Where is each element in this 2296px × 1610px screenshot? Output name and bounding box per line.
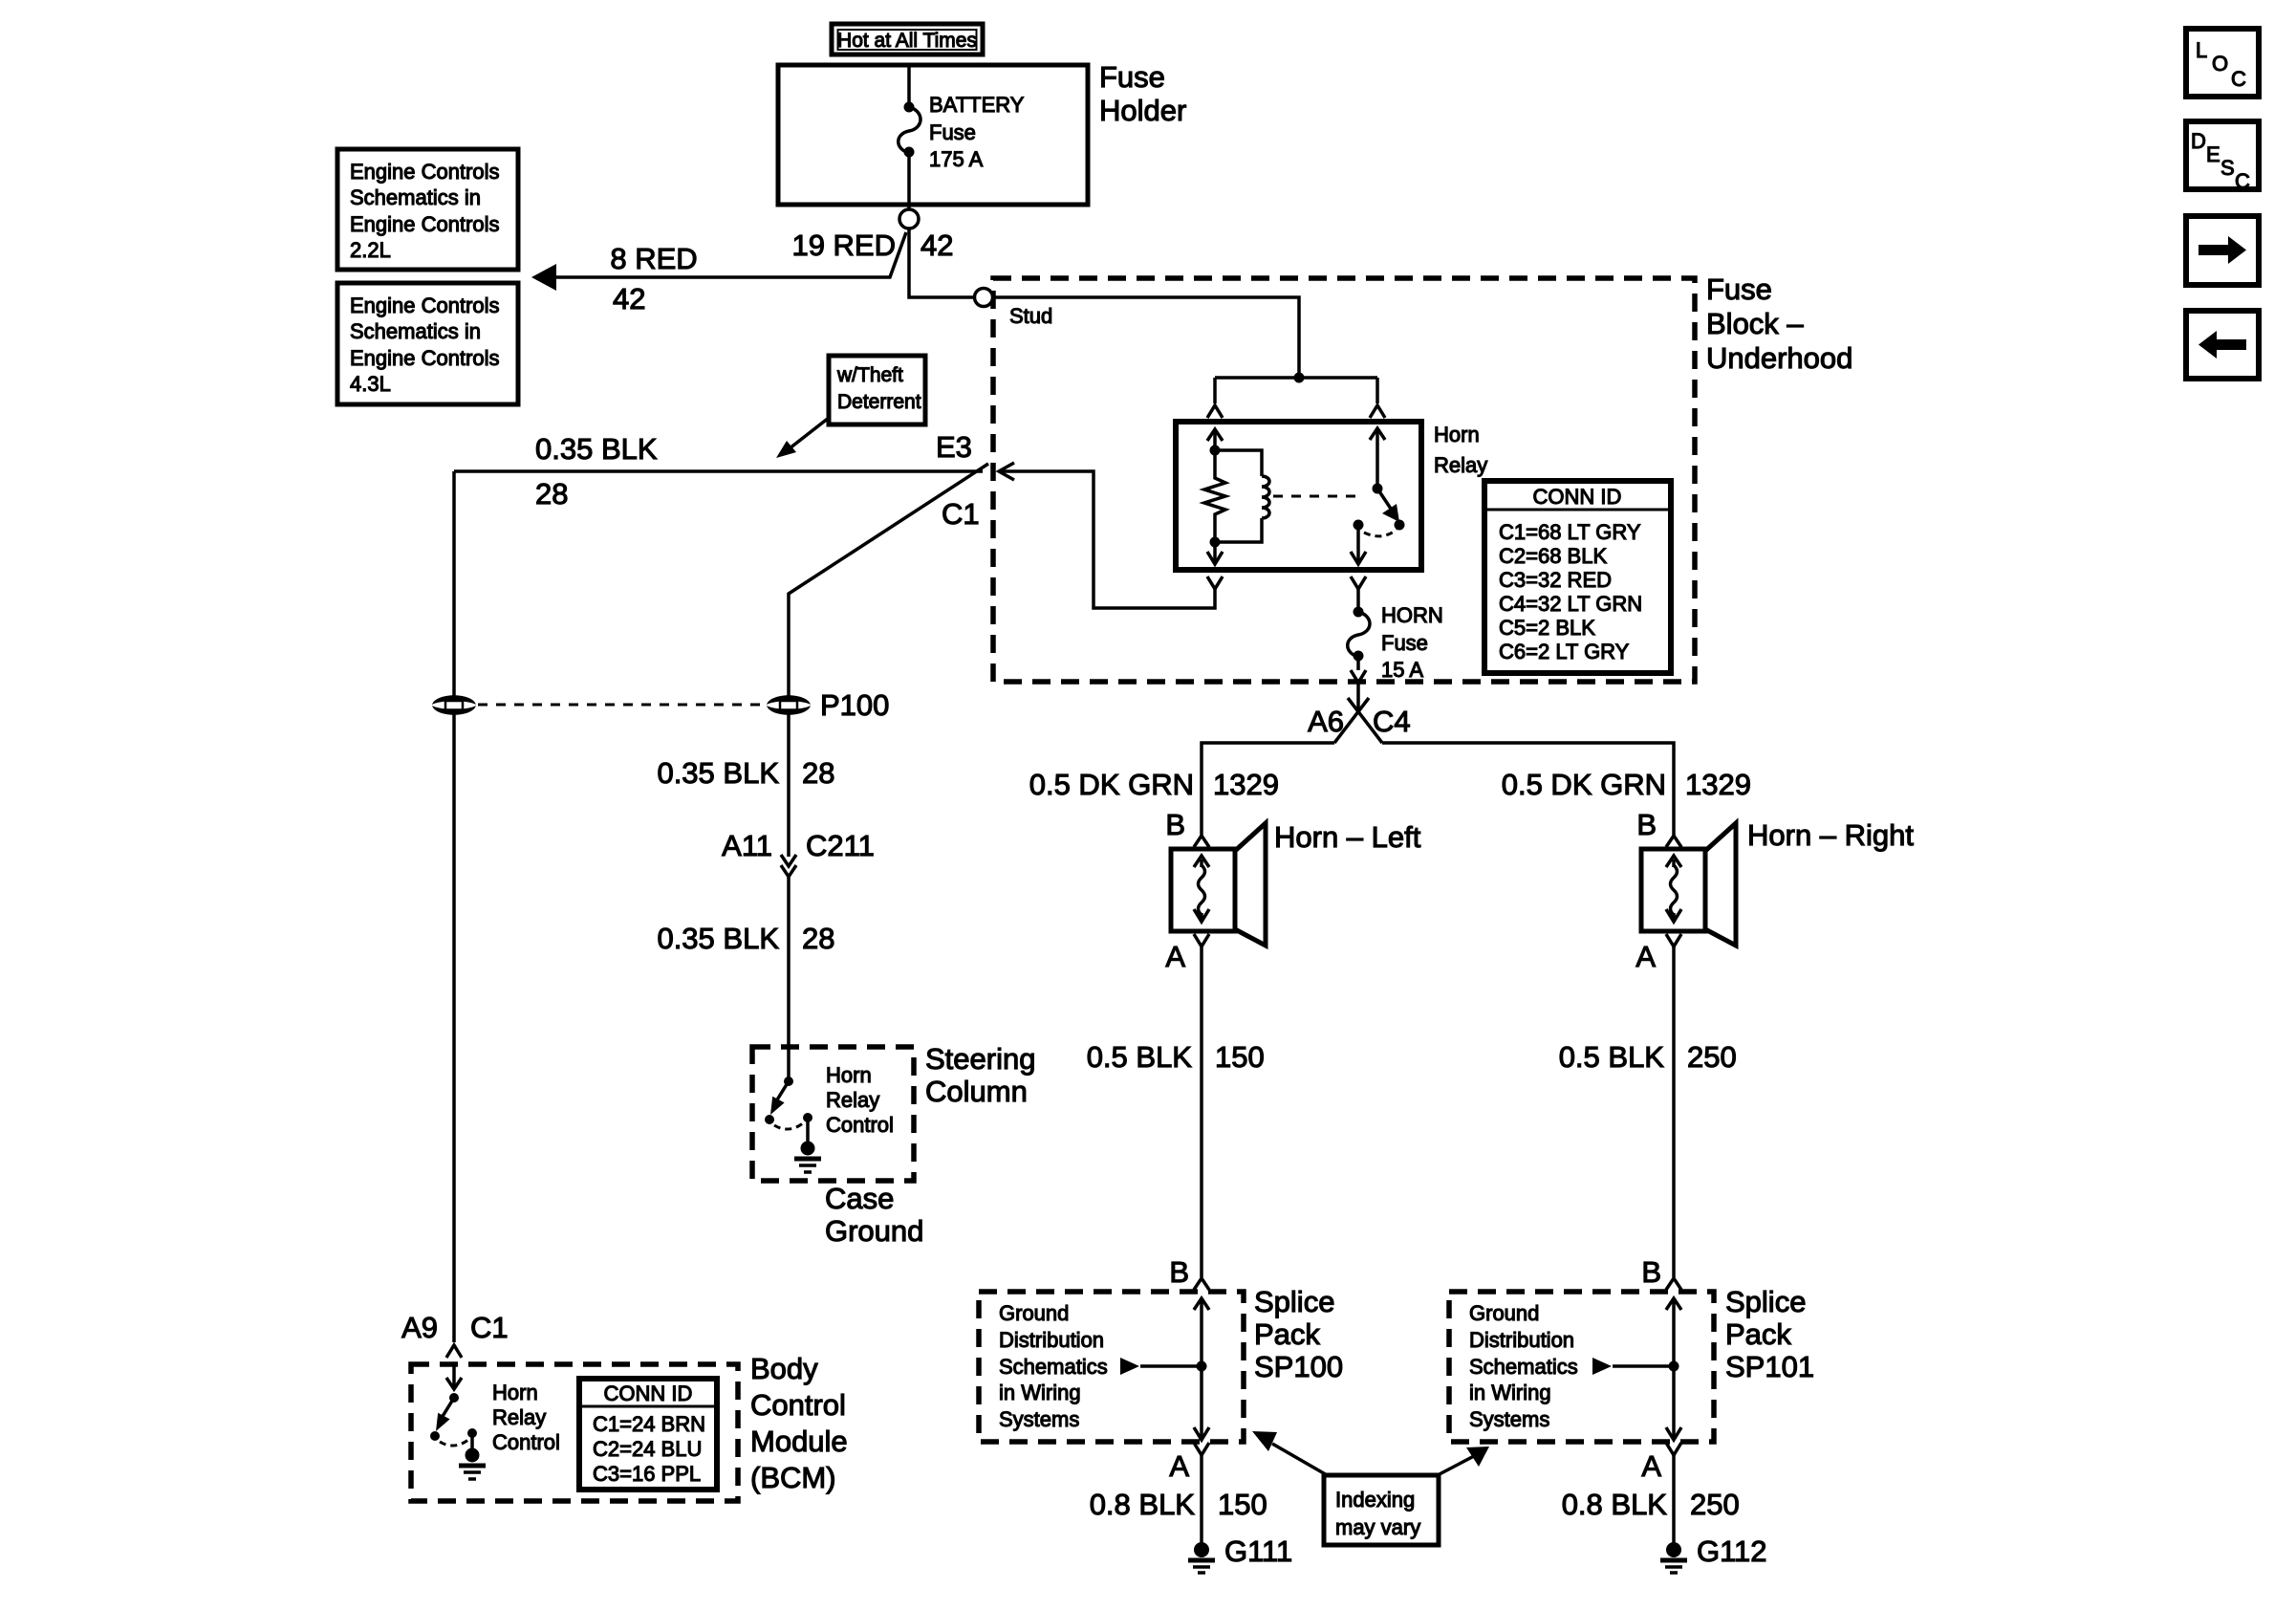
svg-text:0.35 BLK: 0.35 BLK — [657, 756, 779, 790]
wire ring terminal down to stud — [909, 228, 976, 297]
svg-text:2.2L: 2.2L — [350, 238, 391, 262]
ground G111 — [1188, 1534, 1292, 1573]
svg-text:C1=24 BRN: C1=24 BRN — [593, 1412, 705, 1436]
svg-text:BATTERY: BATTERY — [929, 93, 1025, 117]
svg-text:C: C — [2231, 67, 2246, 91]
svg-text:C5=2 BLK: C5=2 BLK — [1499, 616, 1595, 640]
wire label 0.35 BLK 28 — [535, 432, 658, 511]
nav icon DESC — [2186, 121, 2259, 193]
svg-text:Systems: Systems — [999, 1407, 1079, 1431]
ring terminal node — [899, 209, 919, 228]
svg-text:250: 250 — [1690, 1488, 1740, 1521]
svg-text:may vary: may vary — [1335, 1515, 1420, 1539]
svg-text:O: O — [2212, 52, 2228, 76]
wire stud to relay feed — [992, 297, 1299, 378]
pin A chevron (SP100 out) — [1169, 1443, 1209, 1483]
arrowhead at E3 pointing left — [999, 463, 1014, 480]
body control module dashed box — [411, 1364, 738, 1501]
svg-text:Fuse: Fuse — [1099, 60, 1165, 94]
BCM switch arm — [430, 1398, 454, 1441]
SP101 internal entry arrow — [1666, 1298, 1681, 1366]
svg-text:0.8 BLK: 0.8 BLK — [1562, 1488, 1668, 1521]
svg-text:E: E — [2206, 142, 2220, 166]
svg-text:(BCM): (BCM) — [750, 1461, 836, 1494]
relay switch output arrow (internal, down) — [1351, 525, 1366, 564]
svg-text:HORN: HORN — [1381, 603, 1443, 627]
case ground symbol — [794, 1118, 821, 1172]
connector chevron at block edge (A6) — [1351, 670, 1366, 683]
stud node — [975, 289, 1053, 329]
svg-text:B: B — [1641, 1255, 1661, 1289]
svg-text:175 A: 175 A — [929, 147, 984, 171]
svg-text:A11: A11 — [722, 829, 772, 862]
svg-text:Stud: Stud — [1009, 304, 1052, 328]
junction node on relay feed bus — [1294, 373, 1305, 383]
wire fuse to ring terminal — [907, 152, 911, 209]
svg-text:Underhood: Underhood — [1706, 341, 1852, 375]
wire label 0.5 DK GRN 1329 (left) — [1029, 768, 1279, 801]
svg-text:0.35 BLK: 0.35 BLK — [657, 922, 779, 955]
label Fuse Block - Underhood — [1706, 272, 1852, 375]
svg-text:Relay: Relay — [492, 1405, 546, 1429]
svg-text:Control: Control — [492, 1430, 560, 1454]
pin B chevron (SP100) — [1169, 1255, 1209, 1290]
svg-text:C1: C1 — [942, 497, 980, 531]
svg-text:Distribution: Distribution — [999, 1328, 1104, 1352]
svg-text:A: A — [1635, 940, 1656, 973]
wire 0.35 BLK 28 to E3 — [454, 469, 983, 473]
svg-text:Horn: Horn — [492, 1381, 538, 1404]
svg-text:B: B — [1165, 808, 1185, 841]
pin B chevron (horn left) — [1165, 808, 1209, 847]
svg-text:A6: A6 — [1308, 705, 1344, 738]
svg-text:Horn: Horn — [1434, 423, 1480, 446]
svg-text:Column: Column — [925, 1075, 1028, 1108]
svg-text:0.5 DK GRN: 0.5 DK GRN — [1502, 768, 1666, 801]
svg-text:Deterrent: Deterrent — [837, 391, 921, 413]
svg-text:0.5 BLK: 0.5 BLK — [1559, 1040, 1665, 1074]
svg-text:A9: A9 — [401, 1311, 438, 1344]
svg-text:Horn: Horn — [826, 1063, 872, 1087]
hot-at-all-times power label box — [832, 24, 983, 54]
splice pack SP100 dashed box — [979, 1292, 1244, 1442]
svg-text:C1=68 LT GRY: C1=68 LT GRY — [1499, 520, 1641, 544]
SP100 internal exit arrow — [1194, 1366, 1209, 1440]
svg-text:E3: E3 — [936, 430, 972, 464]
wire horn right to splice SP101 — [1672, 946, 1676, 1277]
svg-text:C2=68 BLK: C2=68 BLK — [1499, 544, 1607, 568]
steering column dashed box — [752, 1047, 914, 1181]
svg-text:Fuse: Fuse — [929, 120, 976, 144]
fuse holder box — [778, 60, 1186, 205]
svg-text:28: 28 — [802, 922, 834, 955]
svg-text:42: 42 — [921, 228, 953, 262]
wire label 0.35 BLK 28 — [657, 756, 834, 790]
wire label 0.5 DK GRN 1329 (right) — [1502, 768, 1751, 801]
arrowhead to engine controls schematics — [531, 264, 556, 291]
svg-text:Case: Case — [825, 1182, 894, 1215]
BCM switch contact + dashed throw arc — [440, 1428, 477, 1446]
relay switch common stem — [1370, 428, 1385, 494]
relay coil pin arrow (internal, down) — [1207, 542, 1223, 564]
svg-text:G111: G111 — [1224, 1534, 1292, 1568]
svg-text:SP100: SP100 — [1254, 1350, 1343, 1383]
svg-text:A: A — [1641, 1449, 1661, 1483]
svg-text:A: A — [1165, 940, 1185, 973]
relay coil pin arrow (internal, up) — [1207, 429, 1223, 450]
svg-text:P100: P100 — [820, 688, 889, 722]
label Body Control Module (BCM) — [750, 1352, 848, 1494]
svg-text:15 A: 15 A — [1381, 658, 1423, 682]
label Horn Relay Control (BCM) — [492, 1381, 560, 1454]
relay switch throw contact — [1354, 520, 1397, 536]
horn left symbol — [1171, 823, 1266, 946]
svg-text:w/Theft: w/Theft — [836, 364, 903, 386]
wire horn left to splice SP100 — [1200, 946, 1203, 1277]
svg-text:0.5 DK GRN: 0.5 DK GRN — [1029, 768, 1194, 801]
fuse BATTERY 175 A — [899, 93, 1025, 171]
left trunk wire lower (to BCM) — [452, 713, 456, 1342]
svg-text:L: L — [2196, 38, 2207, 62]
svg-text:0.5 BLK: 0.5 BLK — [1087, 1040, 1193, 1074]
wire C211 to steering column — [787, 877, 791, 1081]
svg-text:in Wiring: in Wiring — [1469, 1381, 1551, 1404]
nav icon arrow left — [2186, 311, 2259, 379]
horn switch contact + dashed throw arc — [774, 1113, 812, 1129]
wire SP101 to G112 — [1672, 1455, 1676, 1544]
arrow from indexing note to SP101 — [1436, 1447, 1489, 1476]
resistor (relay) — [1204, 450, 1225, 542]
svg-text:Fuse: Fuse — [1706, 272, 1772, 306]
pin B chevron (SP101) — [1641, 1255, 1681, 1290]
svg-text:Schematics: Schematics — [999, 1355, 1108, 1379]
svg-text:C3=32 RED: C3=32 RED — [1499, 568, 1612, 592]
svg-text:42: 42 — [613, 282, 645, 315]
svg-text:19 RED: 19 RED — [791, 228, 896, 262]
SP100 junction node — [1197, 1361, 1207, 1372]
left trunk wire upper — [452, 471, 456, 696]
connector P100 — [767, 688, 889, 722]
svg-text:C211: C211 — [806, 829, 875, 862]
CONN ID table (fuse block) — [1484, 481, 1671, 673]
wire 8 RED branch (diagonal + horizontal to engine controls) — [538, 232, 906, 277]
svg-text:8 RED: 8 RED — [610, 242, 697, 275]
svg-text:D: D — [2191, 129, 2206, 153]
svg-text:1329: 1329 — [1213, 768, 1279, 801]
svg-text:C2=24 BLU: C2=24 BLU — [593, 1437, 702, 1461]
wire SP100 to G111 — [1200, 1455, 1203, 1544]
wire P100 to C211 — [787, 713, 791, 857]
SP101 internal exit arrow — [1666, 1366, 1681, 1440]
connector chevron relay switch top — [1370, 405, 1385, 418]
pin B chevron (horn right) — [1636, 808, 1681, 847]
label Splice Pack SP100 — [1254, 1285, 1343, 1383]
wire drop to relay pin left — [1213, 378, 1217, 403]
svg-text:Pack: Pack — [1725, 1317, 1791, 1351]
wire feed bus — [1215, 376, 1377, 380]
relay internal node top of coil branch — [1210, 446, 1221, 456]
svg-text:G112: G112 — [1697, 1534, 1767, 1568]
svg-text:C4: C4 — [1373, 705, 1411, 738]
horn right symbol — [1641, 823, 1736, 946]
label Splice Pack SP101 — [1725, 1285, 1814, 1383]
svg-text:Control: Control — [826, 1113, 894, 1137]
pin A chevron (horn right) — [1635, 934, 1681, 973]
wire label 0.5 BLK 250 — [1559, 1040, 1737, 1074]
pin A chevron (horn left) — [1165, 934, 1209, 973]
svg-text:Hot at All Times: Hot at All Times — [837, 30, 977, 52]
svg-text:28: 28 — [535, 477, 568, 511]
wire horn fuse to block edge — [1356, 656, 1360, 670]
svg-text:0.8 BLK: 0.8 BLK — [1090, 1488, 1196, 1521]
svg-text:Relay: Relay — [826, 1088, 879, 1112]
reference box: Engine Controls 2.2L — [337, 149, 518, 270]
svg-text:Engine Controls: Engine Controls — [350, 346, 500, 370]
svg-text:Indexing: Indexing — [1335, 1488, 1415, 1512]
label Horn Relay — [1434, 423, 1487, 477]
relay switch arm — [1377, 489, 1405, 531]
svg-text:Body: Body — [750, 1352, 818, 1385]
horn switch arm — [765, 1081, 789, 1124]
inline connector (left trunk) — [432, 695, 476, 715]
label Case Ground — [825, 1182, 923, 1248]
label Ground Distribution Schematics in Wiring Systems (SP100) — [999, 1301, 1108, 1431]
svg-text:Schematics in: Schematics in — [350, 319, 481, 343]
pin A chevron (SP101 out) — [1641, 1443, 1681, 1483]
svg-text:C3=16 PPL: C3=16 PPL — [593, 1462, 701, 1486]
svg-text:A: A — [1169, 1449, 1189, 1483]
svg-text:C6=2 LT GRY: C6=2 LT GRY — [1499, 640, 1630, 664]
indexing may vary note box — [1324, 1475, 1439, 1545]
arrow from w/Theft note to wire — [776, 418, 829, 458]
svg-text:Horn – Right: Horn – Right — [1747, 818, 1914, 852]
relay control dashed link — [1273, 495, 1364, 498]
svg-text:Splice: Splice — [1254, 1285, 1334, 1318]
svg-text:S: S — [2220, 156, 2235, 180]
horn relay control switch (BCM): pivot node — [449, 1393, 459, 1403]
nav icon LOC — [2186, 29, 2259, 97]
svg-text:Splice: Splice — [1725, 1285, 1806, 1318]
svg-text:Ground: Ground — [1469, 1301, 1539, 1325]
wire fork to left horn — [1202, 743, 1334, 836]
svg-text:150: 150 — [1215, 1040, 1265, 1074]
CONN ID table (BCM) — [579, 1379, 717, 1490]
label Ground Distribution Schematics in Wiring Systems (SP101) — [1469, 1301, 1578, 1431]
svg-text:CONN ID: CONN ID — [1533, 485, 1622, 509]
wire from box top to battery fuse — [907, 65, 911, 107]
connector A11 / C211 double chevron — [722, 829, 875, 877]
BCM input arrow (internal, down) — [446, 1364, 462, 1389]
svg-text:B: B — [1636, 808, 1657, 841]
svg-text:Block –: Block – — [1706, 307, 1804, 340]
node E3 / C1 crossing slash — [936, 430, 980, 531]
splice pack SP101 dashed box — [1449, 1292, 1714, 1442]
svg-text:B: B — [1169, 1255, 1189, 1289]
BCM internal ground symbol — [459, 1433, 486, 1479]
SP100 internal entry arrow — [1194, 1298, 1209, 1366]
connector chevron relay coil top — [1207, 405, 1223, 418]
connector A9 / C1 chevron — [401, 1311, 509, 1358]
label Steering Column — [925, 1042, 1035, 1108]
svg-text:4.3L: 4.3L — [350, 372, 391, 396]
wire label 8 RED 42 — [610, 242, 697, 315]
connector chevron relay coil bottom (external) — [1207, 577, 1223, 589]
ground G112 — [1660, 1534, 1767, 1573]
relay internal node bottom of coil branch — [1210, 537, 1221, 548]
svg-text:Engine Controls: Engine Controls — [350, 294, 500, 317]
connector chevron relay switch bottom (external) — [1351, 577, 1366, 589]
svg-text:CONN ID: CONN ID — [604, 1382, 693, 1405]
wire relay output to horn fuse — [1356, 589, 1360, 612]
svg-text:Module: Module — [750, 1425, 848, 1458]
svg-text:Ground: Ground — [825, 1214, 923, 1248]
wire E3 feed inside block (from relay coil return) — [1000, 471, 1215, 608]
horn switch (steering): pivot node — [784, 1077, 793, 1086]
wire label 19 RED 42 — [791, 228, 953, 262]
svg-text:28: 28 — [802, 756, 834, 790]
svg-text:Pack: Pack — [1254, 1317, 1320, 1351]
label Horn Relay Control (steering) — [826, 1063, 894, 1137]
wire label 0.8 BLK 250 — [1562, 1488, 1740, 1521]
reference box: Engine Controls 4.3L — [337, 283, 518, 404]
wire fork to right horn — [1382, 743, 1674, 836]
svg-text:C4=32 LT GRN: C4=32 LT GRN — [1499, 592, 1642, 616]
svg-text:Engine Controls: Engine Controls — [350, 160, 500, 184]
svg-text:Holder: Holder — [1099, 94, 1186, 127]
svg-text:Steering: Steering — [925, 1042, 1035, 1076]
svg-text:Relay: Relay — [1434, 453, 1487, 477]
wire label 0.35 BLK 28 — [657, 922, 834, 955]
fuse block underhood dashed enclosure — [993, 278, 1695, 682]
svg-text:C1: C1 — [470, 1311, 509, 1344]
svg-text:Systems: Systems — [1469, 1407, 1549, 1431]
svg-text:Ground: Ground — [999, 1301, 1069, 1325]
fuse HORN 15 A — [1348, 603, 1443, 682]
svg-text:Distribution: Distribution — [1469, 1328, 1574, 1352]
node A6 X C4 fork below fuse block — [1308, 683, 1411, 743]
svg-text:SP101: SP101 — [1725, 1350, 1814, 1383]
dashed pairing link to P100 — [478, 704, 765, 707]
coil (relay) — [1215, 450, 1269, 542]
horn relay box — [1176, 422, 1421, 570]
SP100 ground distribution pointer — [1120, 1358, 1202, 1375]
svg-text:Schematics in: Schematics in — [350, 185, 481, 209]
wire label 0.8 BLK 150 — [1090, 1488, 1267, 1521]
w/Theft Deterrent note box — [829, 356, 925, 424]
svg-text:Engine Controls: Engine Controls — [350, 212, 500, 236]
svg-text:Horn – Left: Horn – Left — [1274, 820, 1421, 854]
svg-text:1329: 1329 — [1685, 768, 1751, 801]
svg-text:C: C — [2235, 169, 2250, 193]
svg-text:in Wiring: in Wiring — [999, 1381, 1081, 1404]
svg-text:Control: Control — [750, 1388, 846, 1422]
svg-text:250: 250 — [1687, 1040, 1737, 1074]
svg-text:Schematics: Schematics — [1469, 1355, 1578, 1379]
svg-text:Fuse: Fuse — [1381, 631, 1428, 655]
wire drop to relay pin right — [1375, 378, 1379, 403]
arrow from indexing note to SP100 — [1252, 1431, 1329, 1476]
SP101 junction node — [1669, 1361, 1679, 1372]
SP101 ground distribution pointer — [1592, 1358, 1674, 1375]
nav icon arrow right — [2186, 216, 2259, 285]
svg-text:0.35 BLK: 0.35 BLK — [535, 432, 658, 466]
wire label 0.5 BLK 150 — [1087, 1040, 1265, 1074]
svg-text:150: 150 — [1218, 1488, 1267, 1521]
wire diagonal from steering column branch to E3 — [789, 464, 988, 699]
